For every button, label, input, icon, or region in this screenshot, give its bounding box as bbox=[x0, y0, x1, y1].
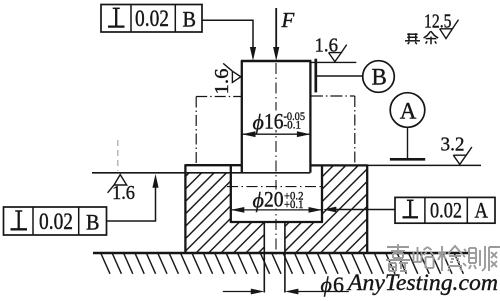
svg-text:0.02: 0.02 bbox=[135, 6, 169, 31]
phantom outline right vertical bbox=[354, 96, 356, 165]
shaft left edge bbox=[241, 61, 243, 173]
svg-text:1.6: 1.6 bbox=[211, 69, 233, 95]
hole horizontal centerline bbox=[227, 186, 325, 188]
svg-text:A: A bbox=[400, 99, 417, 124]
phantom outline right top bbox=[311, 95, 355, 97]
svg-text:B: B bbox=[372, 65, 387, 90]
phi16 dimension bbox=[242, 109, 310, 138]
svg-text:A: A bbox=[475, 198, 489, 223]
phantom outline left top bbox=[196, 96, 241, 98]
svg-text:F: F bbox=[281, 8, 295, 32]
svg-text:AnyTesting.com: AnyTesting.com bbox=[346, 270, 498, 296]
hatch base bottom-left segment bbox=[231, 222, 264, 252]
base left edge bbox=[184, 164, 186, 253]
svg-text:B: B bbox=[183, 7, 197, 32]
force F arrow bbox=[273, 8, 294, 61]
phi6 hole right wall bbox=[284, 222, 286, 293]
datum A base bar bbox=[390, 158, 425, 161]
datum A stem bbox=[407, 127, 409, 158]
phi20 dimension bbox=[231, 187, 322, 213]
roughness 12.5 for all other surfaces bbox=[424, 11, 459, 39]
watermark chinese characters (gray) bbox=[386, 244, 500, 271]
svg-text:1.6: 1.6 bbox=[112, 182, 135, 204]
svg-text:0.02: 0.02 bbox=[39, 209, 73, 234]
text qi-yu (rest of surfaces) hand drawn bbox=[405, 31, 438, 44]
svg-text:6: 6 bbox=[333, 272, 344, 297]
hatch base left wall bbox=[185, 173, 230, 252]
datum B thick target line on shaft bbox=[314, 59, 317, 93]
datum B circle bbox=[363, 61, 395, 93]
datum B connector line bbox=[317, 75, 363, 77]
svg-text:12.5: 12.5 bbox=[424, 11, 452, 33]
svg-text:3.2: 3.2 bbox=[441, 134, 465, 156]
svg-text:+0.1: +0.1 bbox=[284, 199, 304, 211]
svg-text:B: B bbox=[86, 210, 100, 235]
phi6 dimension bbox=[223, 272, 349, 297]
pocket bottom bbox=[230, 221, 323, 223]
shaft right edge bbox=[309, 61, 311, 173]
phantom outline left vertical bbox=[195, 97, 197, 165]
base top right extension line to datum A region bbox=[367, 164, 481, 166]
ground hatch strokes bbox=[101, 254, 463, 274]
base right edge bbox=[366, 164, 368, 253]
roughness 1.6 under shoulder extension line (flipped) bbox=[108, 175, 135, 204]
top FCF leader (right then down with arrow) bbox=[202, 20, 256, 61]
svg-text:-0.1: -0.1 bbox=[284, 119, 302, 131]
datum A circle bbox=[390, 93, 425, 128]
phi6 hole left wall bbox=[263, 222, 265, 293]
ground line bbox=[93, 252, 470, 255]
shoulder line and its left extension bbox=[92, 172, 310, 174]
svg-text:0.02: 0.02 bbox=[430, 198, 462, 223]
bottom-left feature control frame (perpendicularity 0.02 B) bbox=[4, 207, 107, 235]
svg-text:ϕ: ϕ bbox=[253, 110, 264, 135]
roughness 1.6 on shaft top extension line bbox=[315, 34, 347, 61]
bottom-right FCF leader (left with arrow) bbox=[323, 207, 395, 213]
base top left edge bbox=[185, 164, 241, 166]
top feature control frame (perpendicularity 0.02 B) bbox=[101, 5, 202, 33]
svg-text:20: 20 bbox=[264, 187, 284, 212]
hatch base bottom-right segment bbox=[285, 222, 322, 252]
base top right edge bbox=[310, 164, 367, 166]
hatch base right wall bbox=[322, 166, 367, 252]
pocket right wall bbox=[321, 165, 323, 222]
roughness 1.6 rotated on shaft left edge bbox=[211, 63, 241, 94]
svg-text:ϕ: ϕ bbox=[253, 188, 264, 213]
vertical centerline bbox=[275, 63, 277, 258]
pocket left wall bbox=[230, 165, 232, 222]
shaft top extension line to the right bbox=[311, 61, 356, 63]
svg-text:1.6: 1.6 bbox=[315, 34, 339, 56]
svg-text:16: 16 bbox=[264, 109, 284, 134]
roughness 3.2 on base top extension line bbox=[441, 134, 472, 165]
svg-text:ϕ: ϕ bbox=[321, 272, 332, 297]
bottom-right feature control frame (perpendicularity 0.02 A) bbox=[395, 197, 495, 223]
faint gray dashed mark above left extension line bbox=[117, 140, 119, 171]
shaft top edge bbox=[241, 60, 312, 62]
bottom-left FCF leader (right then up with arrow) bbox=[107, 174, 159, 221]
